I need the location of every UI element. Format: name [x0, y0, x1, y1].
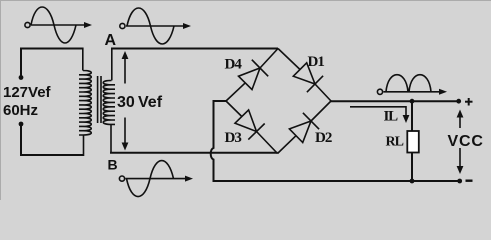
terminal dot bottom [19, 122, 24, 127]
wire: source loop top [21, 49, 83, 78]
resistor RL lead bottom [411, 153, 413, 182]
secondary sine icon at A [120, 8, 191, 44]
wire: bridge left vertex to negative rail (with hop over B wire) [211, 101, 460, 181]
svg-text:D1: D1 [308, 54, 325, 70]
diode D1 [278, 49, 331, 102]
svg-text:RL: RL [386, 135, 404, 150]
30Vef measurement arrow down [122, 118, 129, 151]
terminal dot top [19, 75, 24, 80]
IL current arrow [350, 107, 409, 123]
svg-text:B: B [108, 157, 118, 173]
VCC arrow down [457, 148, 464, 174]
wire: bridge right vertex to + output [331, 100, 459, 102]
transformer primary winding [79, 48, 91, 157]
diode D4 [226, 49, 278, 102]
minus sign [466, 179, 473, 181]
svg-text:D3: D3 [225, 130, 242, 146]
plus sign [465, 98, 473, 106]
svg-text:IL: IL [384, 109, 399, 125]
resistor RL body [407, 131, 419, 153]
junction dot output/RL [410, 99, 415, 104]
svg-text:127Vef: 127Vef [3, 84, 52, 101]
diode D2 [278, 101, 332, 154]
secondary sine icon at B (inverted) [119, 161, 193, 197]
diode D3 [226, 101, 278, 154]
VCC arrow up [457, 110, 464, 129]
AC source sine icon (127V) [25, 7, 92, 43]
rail terminal dot - [457, 179, 462, 184]
wire: A rail to bridge top [111, 48, 278, 50]
rectified output waveform icon [377, 75, 447, 95]
wire: B rail to bridge bottom [110, 152, 278, 154]
wire: source loop bottom [21, 124, 84, 155]
transformer core [98, 76, 101, 123]
transformer secondary winding [103, 49, 115, 153]
svg-text:60Hz: 60Hz [3, 102, 38, 119]
svg-text:VCC: VCC [448, 133, 484, 150]
junction dot rail/RL [410, 179, 415, 184]
output terminal dot + [456, 99, 461, 104]
resistor RL lead top [411, 101, 413, 131]
svg-text:A: A [105, 32, 117, 49]
svg-text:30 Vef: 30 Vef [117, 94, 163, 111]
svg-text:D4: D4 [225, 57, 243, 73]
svg-text:D2: D2 [315, 130, 332, 146]
30Vef measurement arrow up [122, 51, 129, 84]
